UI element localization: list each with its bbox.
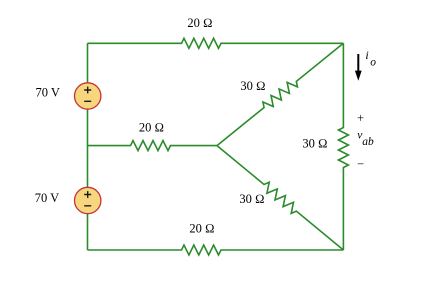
svg-text:20 Ω: 20 Ω: [187, 16, 212, 30]
svg-text:70 V: 70 V: [35, 86, 59, 100]
svg-text:i: i: [365, 48, 368, 62]
svg-text:−: −: [357, 157, 364, 171]
svg-text:20 Ω: 20 Ω: [189, 222, 214, 236]
svg-text:30 Ω: 30 Ω: [239, 192, 264, 206]
svg-text:o: o: [370, 57, 376, 69]
svg-text:30 Ω: 30 Ω: [240, 79, 265, 93]
svg-text:70 V: 70 V: [35, 191, 59, 205]
svg-text:+: +: [357, 111, 364, 125]
svg-text:30 Ω: 30 Ω: [302, 137, 327, 151]
svg-text:20 Ω: 20 Ω: [139, 121, 164, 135]
svg-text:ab: ab: [362, 136, 374, 148]
